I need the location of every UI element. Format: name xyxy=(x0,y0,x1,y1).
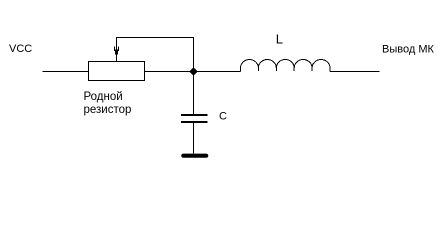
inductor L1 xyxy=(241,60,330,72)
wire: resistor right terminal to node xyxy=(145,71,194,73)
ground bar xyxy=(183,154,206,158)
wire: node to inductor xyxy=(194,71,241,73)
svg-text:VCC: VCC xyxy=(9,43,32,55)
potentiometer wiper arrow xyxy=(115,37,119,61)
wire: inductor to MK pin xyxy=(330,71,379,73)
svg-text:резистор: резистор xyxy=(84,104,132,116)
resistor R1 body (Родной резистор, potentiometer) xyxy=(89,62,145,81)
wire: wiper feedback loop to node xyxy=(117,38,194,72)
wire: VCC lead to resistor left terminal xyxy=(43,71,89,73)
svg-text:Родной: Родной xyxy=(84,91,123,103)
wire: capacitor to ground xyxy=(193,123,195,154)
svg-text:L: L xyxy=(276,32,283,47)
node junction dot xyxy=(189,67,198,76)
capacitor C1 top plate xyxy=(181,114,208,116)
svg-text:Вывод МК: Вывод МК xyxy=(382,44,434,56)
capacitor C1 bottom plate xyxy=(181,121,208,123)
wire: node down to capacitor xyxy=(193,75,195,114)
svg-text:C: C xyxy=(219,111,227,123)
